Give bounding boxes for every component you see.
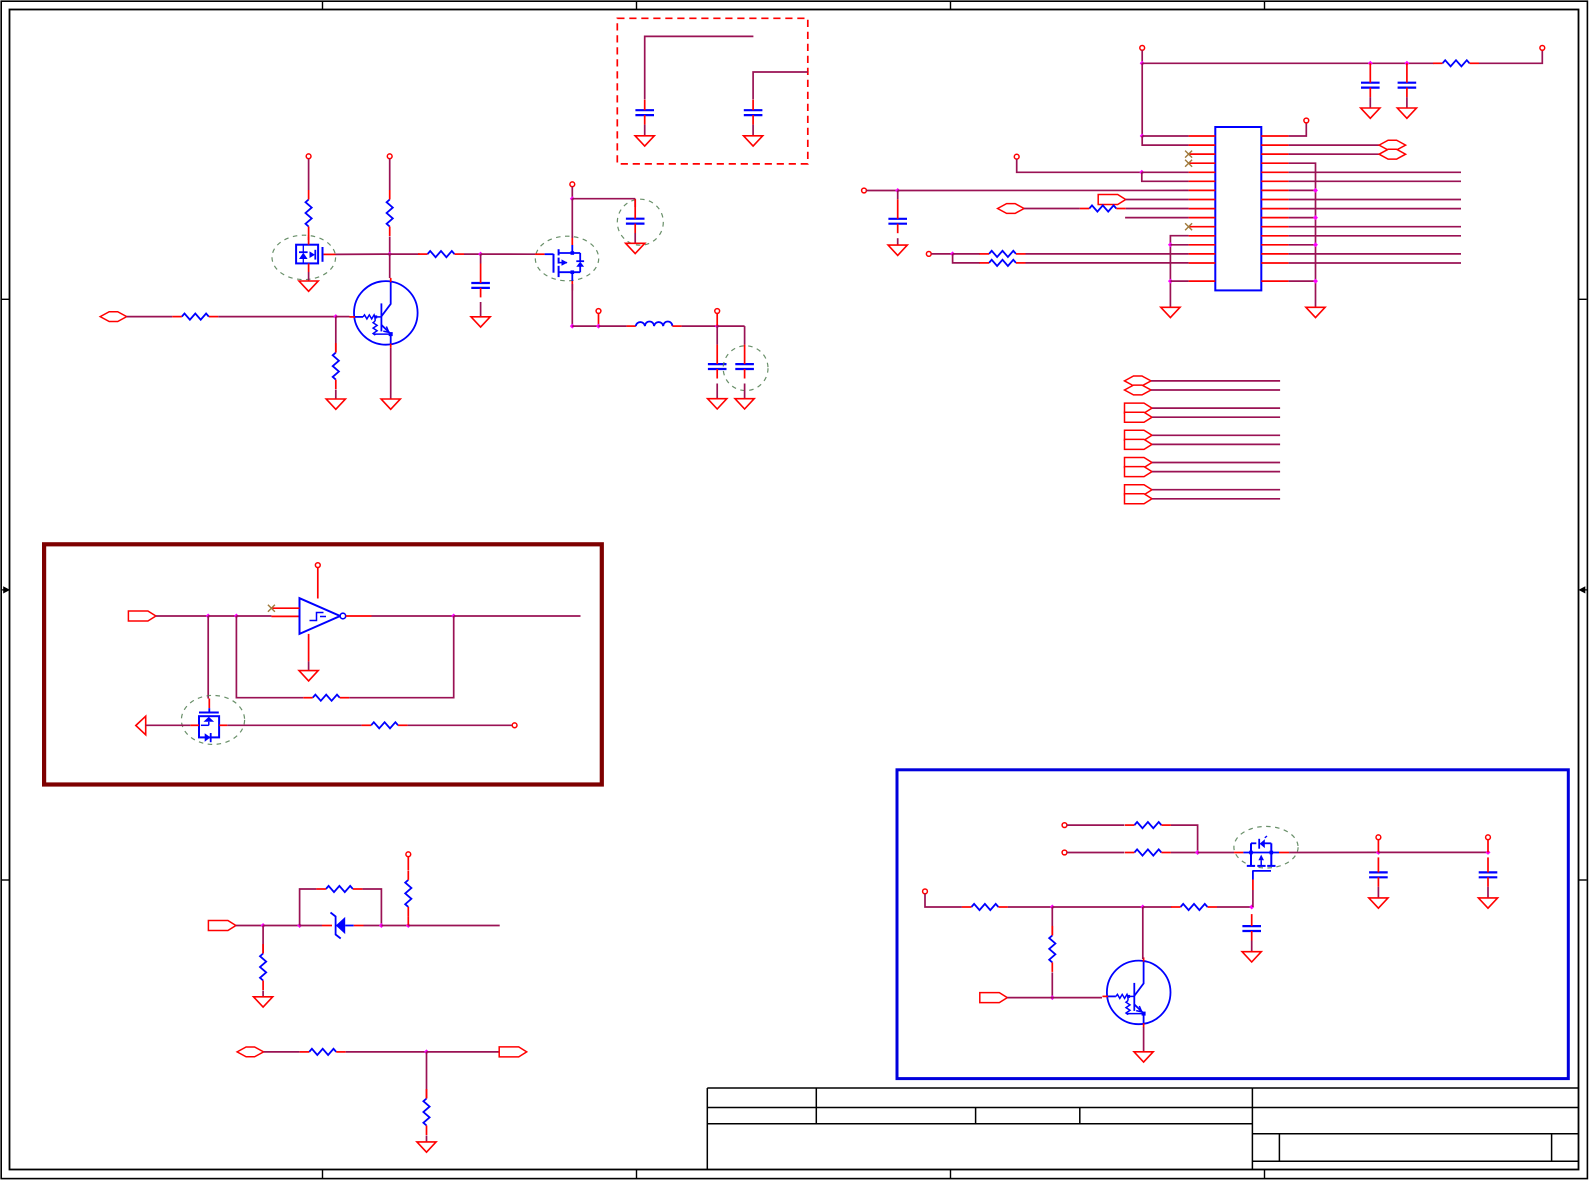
- wire N7 to corner: [717, 325, 744, 327]
- wire Q2 source to ground: [308, 272, 310, 281]
- ground GND left bus: [1161, 307, 1180, 317]
- capacitor C3: [708, 345, 727, 379]
- dashed ellipse C2 ellipse: [617, 199, 663, 245]
- junction node N13: [206, 614, 211, 619]
- junction node N23: [1486, 850, 1491, 855]
- wire R2 to ground: [335, 390, 337, 399]
- pin pin TP2: [715, 309, 720, 314]
- resistor R9: [980, 260, 1026, 266]
- wire N13 down to Q4 gate: [207, 616, 209, 699]
- wire row1 jog: [1142, 136, 1188, 145]
- wire C12 to ground: [1251, 941, 1253, 952]
- pin P11 stub: [1487, 840, 1489, 853]
- ground GND C1: [471, 317, 490, 327]
- wire stack 4: [1152, 416, 1280, 418]
- wire R3 to node N2: [389, 237, 391, 255]
- wire N19 up to R14: [407, 916, 409, 925]
- ground GND C5: [635, 136, 654, 146]
- dashed red box: [617, 18, 808, 164]
- resistor R6: [1433, 60, 1479, 66]
- junction node N10: [1404, 61, 1409, 66]
- wire rail down to U1: [1141, 63, 1143, 136]
- junction node N9: [1368, 61, 1373, 66]
- resistor R21: [1049, 926, 1055, 972]
- capacitor C12: [1242, 914, 1261, 940]
- wire stack 3: [1152, 407, 1280, 409]
- wire Q3 source down: [571, 284, 573, 326]
- junction node N14: [234, 614, 239, 619]
- wire C10 to ground: [1377, 887, 1379, 898]
- capacitor C4: [735, 345, 754, 379]
- wire row8R: [1289, 208, 1461, 210]
- mosfet Q2: [296, 236, 335, 273]
- wire PWR1 down: [1141, 50, 1143, 63]
- ground GND Q6: [1134, 1052, 1153, 1062]
- pin VCC pin R4: [306, 154, 311, 159]
- junction node N18: [379, 923, 384, 928]
- pin pin P2: [1014, 154, 1019, 159]
- pin pin PWR1: [1140, 46, 1145, 51]
- wire L1 to node N7: [682, 325, 718, 327]
- pin pin P11: [1486, 835, 1491, 840]
- port PORT B5: [499, 1047, 527, 1057]
- ground GND C4: [735, 399, 754, 409]
- wire C6 to ground: [752, 125, 754, 136]
- no-connect NC U2 in2: [268, 605, 275, 612]
- wire R12 to ground: [262, 991, 264, 997]
- wire row0R to pin: [1289, 123, 1307, 136]
- wire stub A: [645, 36, 754, 99]
- wire row4R: [1289, 171, 1461, 173]
- wire row12: [1170, 244, 1188, 246]
- port PORT row1R: [1379, 140, 1406, 150]
- port stack port 6: [1125, 439, 1153, 449]
- pin pin P7: [406, 852, 411, 857]
- zener D1: [300, 913, 382, 939]
- capacitor C7: [1361, 63, 1380, 97]
- resistor R20: [1171, 904, 1217, 910]
- wire port P1 to R1: [127, 316, 173, 318]
- junction node N26: [1249, 905, 1254, 910]
- inductor L1: [627, 322, 682, 327]
- wire R19 to node N24: [1008, 906, 1052, 908]
- mosfet Q3: [535, 236, 584, 291]
- wire B1 to node N13: [156, 615, 208, 617]
- wire N24 to N25: [1052, 906, 1143, 908]
- port stack port 3: [1125, 403, 1153, 413]
- U2 gnd pin: [308, 634, 310, 662]
- wire N4 to C2: [572, 198, 635, 200]
- port stack port 8: [1125, 467, 1153, 477]
- wire row10R: [1289, 226, 1461, 228]
- junction node N8: [1140, 61, 1145, 66]
- pin pin Q3 drain: [570, 182, 575, 187]
- no-connect NC row2: [1185, 151, 1192, 158]
- wire row7: [1126, 199, 1189, 201]
- port PORT row2R: [1379, 149, 1406, 159]
- wire stack 1: [1151, 380, 1280, 382]
- pin pin P6: [512, 723, 517, 728]
- wire N27 to Q6 base: [1052, 997, 1102, 999]
- junction node row12R: [1313, 242, 1318, 247]
- wire N6 to L1: [599, 325, 627, 327]
- pin pin P9: [1062, 850, 1067, 855]
- wire stack 8: [1152, 471, 1280, 473]
- junction node row4: [1139, 170, 1144, 175]
- wire C8 to ground: [1406, 97, 1408, 108]
- resistor R13: [316, 886, 362, 892]
- mosfet Q5: [1234, 836, 1289, 890]
- wire R16 to ground: [426, 1136, 428, 1142]
- buffer U2: [300, 598, 346, 634]
- junction node N19: [406, 923, 411, 928]
- wire R11 to pin P6: [408, 724, 513, 726]
- wire N2 down to Q1 collector: [389, 254, 391, 278]
- wire N20 to B5: [427, 1051, 500, 1053]
- capacitor C2: [626, 199, 645, 233]
- resistor R16: [423, 1089, 429, 1135]
- wire R6 to pin PWR2: [1479, 50, 1542, 63]
- port PORT B1: [128, 611, 156, 621]
- wire N18 to N19: [381, 925, 408, 927]
- wire corner down to C4: [744, 326, 746, 345]
- port stack port 7: [1125, 458, 1153, 468]
- wire B3 to node N16: [236, 925, 263, 927]
- wire row1R: [1289, 144, 1380, 146]
- ground GND C11: [1478, 898, 1497, 908]
- IC U1 body: [1215, 127, 1261, 290]
- wire B6 to N27: [1007, 997, 1052, 999]
- wire row9R: [1289, 217, 1316, 219]
- wire N25 down to Q6 collector: [1142, 907, 1144, 959]
- resistor R18: [1125, 849, 1171, 855]
- pin VCC pin Q1 collector: [387, 154, 392, 159]
- wire R15 to node N20: [346, 1051, 427, 1053]
- wire R13 to N18: [362, 889, 381, 926]
- wire C2 to ground: [634, 233, 636, 243]
- wire N24 down to R21: [1051, 907, 1053, 935]
- dashed ellipse Q3 ellipse: [535, 236, 598, 281]
- wire stack 5: [1152, 434, 1280, 436]
- wire N13 to N14: [208, 615, 236, 617]
- junction node N15: [451, 614, 456, 619]
- wire Q2 gate to N2: [336, 253, 390, 255]
- wire N17 up to R13: [300, 889, 317, 926]
- pin pin P3: [862, 188, 867, 193]
- wire row5 jog: [1142, 172, 1189, 181]
- capacitor C11: [1479, 857, 1498, 886]
- capacitor C5: [635, 100, 654, 125]
- wire N3 to Q3 gate: [481, 253, 536, 255]
- port stack port 5: [1125, 430, 1153, 440]
- junction node row12L: [1168, 242, 1173, 247]
- wire P2 to row4: [1017, 159, 1142, 172]
- wire N25 to R20: [1143, 906, 1172, 908]
- wire N20 down: [426, 1052, 428, 1099]
- ground GND R2: [326, 399, 345, 409]
- pin TP1 stub: [598, 313, 600, 326]
- capacitor C8: [1398, 63, 1417, 97]
- junction node N16: [261, 923, 266, 928]
- resistor R5: [418, 251, 464, 257]
- U2 output pin: [346, 615, 372, 617]
- junction node row16R: [1313, 279, 1318, 284]
- resistor R11: [362, 722, 408, 728]
- transistor Q1: [350, 278, 418, 348]
- junction node N5: [570, 324, 575, 329]
- wire N26 up to Q5 gate: [1252, 890, 1254, 907]
- title block: [707, 1088, 1578, 1170]
- junction node N4: [570, 196, 575, 201]
- junction node row16L: [1168, 279, 1173, 284]
- wire row9: [1125, 217, 1189, 219]
- ground GND U2: [299, 671, 318, 681]
- wire pin to R4: [308, 159, 310, 190]
- maroon group box: [44, 544, 602, 784]
- junction node N6: [596, 324, 601, 329]
- wire R17 to node N21: [1171, 825, 1198, 852]
- wire row3R to bus: [1289, 163, 1316, 307]
- pin TP2 stub: [716, 313, 718, 326]
- ground GND C9: [888, 245, 907, 255]
- ground GND R16: [417, 1142, 436, 1152]
- wire N1 down to R2: [335, 317, 337, 353]
- junction node N20: [424, 1049, 429, 1054]
- ground GND C8: [1397, 108, 1416, 118]
- dashed ellipse Q2 ellipse: [272, 235, 336, 279]
- border center arrow right: [1580, 587, 1587, 592]
- port stack port 1: [1125, 376, 1152, 386]
- wire row13 a: [953, 253, 980, 255]
- wire Q1 emitter to ground: [390, 348, 392, 399]
- junction node N2: [387, 252, 392, 257]
- wire R20 to node N26: [1217, 906, 1252, 908]
- buffer U2 power pin: [317, 568, 319, 599]
- junction node N21: [1195, 850, 1200, 855]
- wire row7R: [1289, 199, 1461, 201]
- no-connect NC row10: [1185, 223, 1192, 230]
- ground GND C3: [708, 399, 727, 409]
- wire pin to R3: [389, 159, 391, 190]
- wire row16: [1170, 280, 1188, 282]
- wire N14 to buffer: [236, 615, 299, 617]
- junction node row9R: [1313, 215, 1318, 220]
- transistor Q6: [1102, 957, 1170, 1027]
- wire U2 gnd: [308, 661, 310, 670]
- pin pin P12: [923, 889, 928, 894]
- wire P4 to node N12: [931, 253, 952, 255]
- wire C2 corner down: [634, 199, 636, 207]
- wire row11 from bus: [1170, 236, 1188, 308]
- wire P8 to R17: [1067, 824, 1125, 826]
- ground GND right bus: [1306, 307, 1325, 317]
- junction node N12: [950, 251, 955, 256]
- capacitor C1: [471, 264, 490, 298]
- wire Q6 emitter to ground: [1143, 1027, 1145, 1052]
- pin pin P5: [1304, 118, 1309, 123]
- wire row14 a: [953, 254, 980, 263]
- wire stack 9: [1152, 489, 1280, 491]
- junction node N27: [1050, 995, 1055, 1000]
- capacitor C9: [888, 199, 907, 233]
- resistor R1: [172, 314, 218, 320]
- wire row12R: [1289, 244, 1316, 246]
- wire stub B: [753, 72, 808, 99]
- wire row11R: [1289, 235, 1461, 237]
- resistor R14: [405, 870, 411, 916]
- junction node N3: [478, 252, 483, 257]
- wire row13 b: [1026, 253, 1189, 255]
- wire R18 to N21: [1171, 852, 1198, 854]
- wire row8 a: [1024, 208, 1080, 210]
- wire B2 to Q4: [146, 724, 191, 726]
- ground GND C6: [744, 136, 763, 146]
- junction node N24: [1050, 905, 1055, 910]
- resistor R7: [1080, 205, 1126, 211]
- wire stack 2: [1151, 389, 1280, 391]
- junction node N17: [297, 923, 302, 928]
- wire stack 6: [1152, 443, 1280, 445]
- pin pin PWR2: [1540, 46, 1545, 51]
- pin pin P4: [926, 252, 931, 257]
- wire N7 down to C3: [716, 326, 718, 345]
- wire N2 to R5: [390, 253, 420, 255]
- blue group box: [897, 770, 1568, 1079]
- pin pin P8: [1062, 823, 1067, 828]
- junction node N22: [1376, 850, 1381, 855]
- port P1: [100, 312, 127, 322]
- wire row14 b: [1026, 262, 1189, 264]
- wire P3 to node N11: [866, 190, 897, 192]
- wire row6R: [1289, 189, 1316, 191]
- wire C9 to ground: [897, 238, 899, 245]
- wire U2 out to node N15: [372, 615, 454, 617]
- junction node N11: [895, 188, 900, 193]
- IC U1 pins: [1189, 136, 1289, 281]
- capacitor C6: [744, 100, 763, 125]
- feedback wire left: [236, 616, 303, 698]
- capacitor C10: [1369, 857, 1388, 886]
- wire N11 down to C9: [897, 191, 899, 200]
- wire row0: [1142, 135, 1188, 137]
- resistor R2: [333, 343, 339, 389]
- ground GND C7: [1361, 108, 1380, 118]
- no-connect NC row3: [1185, 160, 1192, 167]
- resistor R4: [306, 190, 312, 236]
- power rail wire: [1142, 62, 1433, 64]
- wire row16R: [1289, 280, 1316, 282]
- resistor R3: [387, 190, 393, 236]
- wire row4: [1142, 171, 1189, 173]
- arrow port B2: [136, 716, 146, 735]
- resistor R12: [260, 944, 266, 990]
- wire C4 to ground: [744, 384, 746, 399]
- wire R5 to node N3: [464, 253, 481, 255]
- ground GND C10: [1369, 898, 1388, 908]
- resistor R17: [1125, 822, 1171, 828]
- port PORT B3: [208, 921, 236, 931]
- mosfet Q4: [190, 699, 227, 743]
- wire C11 to ground: [1487, 887, 1489, 898]
- wire Q4 to R11: [227, 724, 361, 726]
- port PORT row8: [998, 204, 1025, 214]
- wire Q5 to node N22: [1289, 851, 1378, 853]
- wire pin down to node N4: [571, 187, 573, 199]
- ground GND C2: [626, 243, 645, 253]
- wire row2R: [1289, 153, 1380, 155]
- wire C7 to ground: [1369, 97, 1371, 108]
- port PORT B4: [237, 1047, 264, 1057]
- port stack port 9: [1125, 485, 1153, 495]
- wire R14 to pin P7: [407, 857, 409, 870]
- wire N15 to end: [454, 615, 581, 617]
- junction node N7: [715, 324, 720, 329]
- pin P10 stub: [1377, 840, 1379, 853]
- wire N5 to N6: [572, 325, 598, 327]
- wire N16 to N17: [263, 925, 300, 927]
- wire N21 to Q5: [1198, 852, 1235, 854]
- wire N3 down to C1: [480, 254, 482, 263]
- wire C5 to ground: [644, 125, 646, 136]
- port stack port 2: [1125, 385, 1152, 395]
- junction node row6R: [1313, 188, 1318, 193]
- wire N4 to Q3 drain: [571, 199, 573, 238]
- pin pin P10: [1376, 835, 1381, 840]
- wire N22 to N23: [1378, 851, 1488, 853]
- feedback wire right: [349, 616, 454, 698]
- wire N16 down: [262, 926, 264, 954]
- wire N1 to Q1 base: [336, 316, 350, 318]
- dashed ellipse Q4 ellipse: [181, 695, 244, 744]
- wire R4 to Q2 drain: [308, 237, 310, 241]
- wire C1 to ground: [480, 302, 482, 317]
- wire row5R: [1289, 180, 1461, 182]
- resistor R15: [300, 1049, 346, 1055]
- wire stack 7: [1152, 462, 1280, 464]
- wire R21 to node N27: [1051, 972, 1053, 997]
- port PORT B6: [980, 993, 1008, 1003]
- junction node N1: [333, 314, 338, 319]
- resistor R19: [962, 904, 1008, 910]
- wire row8 b: [1126, 208, 1189, 210]
- pin pin TP1: [596, 309, 601, 314]
- port stack port 4: [1125, 412, 1153, 422]
- wire B4 to R15: [264, 1051, 300, 1053]
- wire P12 to R19: [925, 894, 962, 907]
- wire row14R: [1289, 262, 1461, 264]
- ground GND C12: [1242, 952, 1261, 962]
- wire stack 10: [1152, 498, 1280, 500]
- port stack port 10: [1125, 494, 1153, 504]
- wire C3 to ground: [716, 384, 718, 399]
- U2 NC input pin: [273, 607, 300, 609]
- junction node row0: [1140, 134, 1145, 139]
- wire row13R: [1289, 253, 1461, 255]
- ground GND Q2: [299, 281, 318, 291]
- wire N19 to end: [408, 925, 499, 927]
- dashed ellipse C4 ellipse: [723, 346, 768, 391]
- resistor R8: [980, 251, 1026, 257]
- dashed ellipse Q5 ellipse: [1234, 826, 1298, 868]
- junction node N25: [1140, 905, 1145, 910]
- ground GND R12: [254, 997, 273, 1007]
- ground GND Q1: [381, 399, 400, 409]
- wire R1 to node N1: [218, 316, 335, 318]
- pin pin U2 VCC: [315, 563, 320, 568]
- border center arrow left: [2, 587, 9, 592]
- wire P9 to R18: [1067, 852, 1125, 854]
- wire row6: [898, 189, 1189, 191]
